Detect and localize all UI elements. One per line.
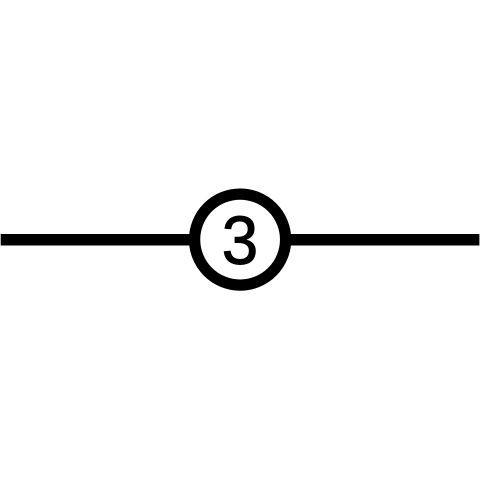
wire (left segment) [1, 234, 196, 246]
node 3 (circled terminal symbol) [195, 194, 286, 285]
wire (right segment) [284, 234, 479, 246]
svg-text:3: 3 [222, 203, 258, 280]
